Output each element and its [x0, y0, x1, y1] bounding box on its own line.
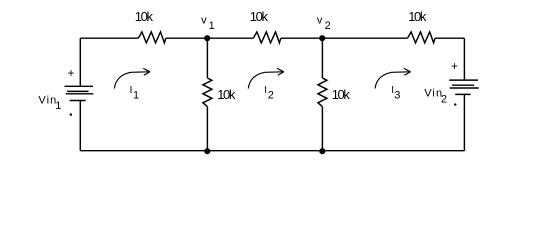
svg-text:10k: 10k: [217, 87, 236, 102]
svg-text:v: v: [201, 15, 207, 27]
svg-text:2: 2: [268, 89, 274, 101]
svg-text:10k: 10k: [135, 9, 154, 24]
svg-text:+: +: [451, 59, 458, 73]
svg-text:I: I: [130, 85, 133, 96]
svg-text:2: 2: [325, 20, 331, 32]
svg-text:I: I: [264, 85, 267, 96]
svg-text:10k: 10k: [250, 9, 269, 24]
svg-text:10k: 10k: [408, 9, 427, 24]
svg-text:1: 1: [55, 100, 61, 112]
svg-text:1: 1: [133, 89, 139, 101]
svg-text:+: +: [68, 66, 75, 80]
svg-text:1: 1: [209, 20, 215, 32]
svg-text:3: 3: [394, 89, 400, 101]
svg-text:v: v: [317, 15, 323, 27]
svg-text:10k: 10k: [332, 87, 351, 102]
svg-text:2: 2: [441, 93, 447, 105]
